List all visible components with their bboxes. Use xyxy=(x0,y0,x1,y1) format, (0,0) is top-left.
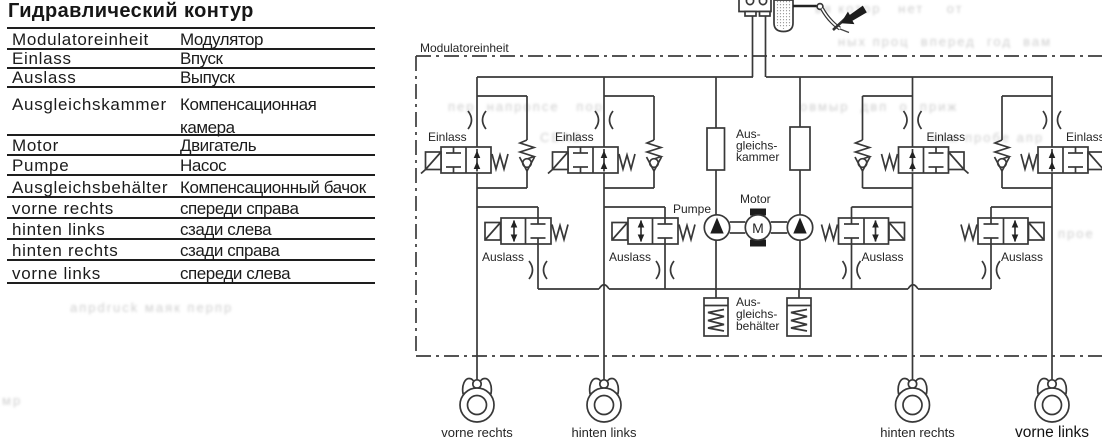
svg-text:hinten rechts: hinten rechts xyxy=(880,425,955,440)
svg-text:Auslass: Auslass xyxy=(482,250,524,264)
svg-text:Einlass: Einlass xyxy=(428,130,467,144)
svg-text:Einlass: Einlass xyxy=(1066,130,1102,144)
svg-text:vorne links: vorne links xyxy=(1015,424,1089,441)
svg-text:Motor: Motor xyxy=(740,192,771,206)
svg-text:hinten links: hinten links xyxy=(571,425,637,440)
svg-text:kammer: kammer xyxy=(736,150,779,164)
svg-text:Einlass: Einlass xyxy=(927,130,966,144)
svg-text:Modulatoreinheit: Modulatoreinheit xyxy=(420,41,509,55)
svg-text:behälter: behälter xyxy=(736,319,779,333)
svg-text:M: M xyxy=(752,220,764,236)
svg-text:vorne rechts: vorne rechts xyxy=(441,425,513,440)
svg-text:Einlass: Einlass xyxy=(555,130,594,144)
svg-text:Pumpe: Pumpe xyxy=(673,202,711,216)
svg-text:Auslass: Auslass xyxy=(1001,250,1043,264)
svg-text:Auslass: Auslass xyxy=(862,250,904,264)
svg-text:Auslass: Auslass xyxy=(609,250,651,264)
